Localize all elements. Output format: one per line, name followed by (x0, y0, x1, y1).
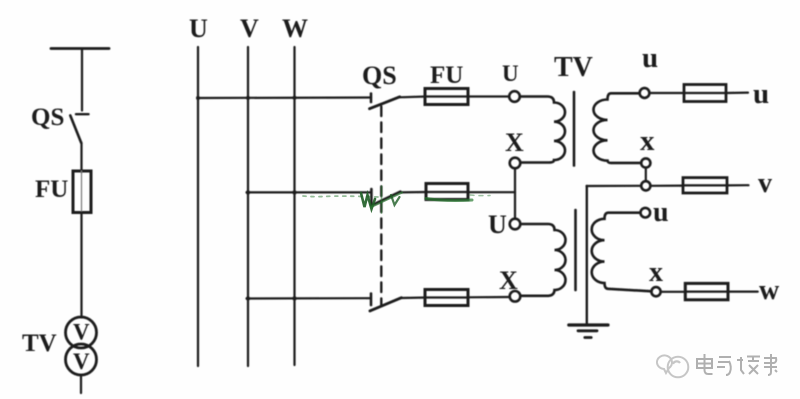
disconnector QS (left) contact tick (76, 113, 89, 115)
junction bus W row3 crossing (292, 296, 296, 300)
voltage transformer TV (left) lower circle (66, 344, 97, 375)
terminal X upper circle (510, 158, 521, 169)
fuse FU row2 wire through (426, 191, 468, 193)
svg-text:FU: FU (430, 62, 463, 89)
green underline under fuse row2 (426, 199, 472, 201)
svg-text:U: U (189, 14, 208, 43)
fuse FU row2 body (426, 184, 468, 200)
svg-text:v: v (758, 168, 772, 199)
junction bus U row1 (196, 96, 200, 100)
green dots right of fuse (470, 194, 490, 197)
wire FU row2 to node (468, 191, 515, 193)
core lower TV (574, 210, 577, 290)
ground bar 3 (585, 336, 591, 339)
disconnector QS (left) blade (70, 116, 81, 144)
svg-text:FU: FU (35, 176, 68, 203)
busbar (51, 47, 109, 50)
terminal u lower circle (spare) (641, 208, 651, 218)
disconnector QS row3 contact tick (370, 294, 373, 306)
fuse FU row1 body (425, 89, 468, 105)
wire busbar to QS (81, 49, 83, 111)
disconnector QS row2 blade (372, 192, 401, 206)
core upper TV (573, 92, 576, 166)
svg-text:V: V (73, 349, 90, 374)
grey watermark logo (657, 355, 688, 377)
disconnector QS row1 blade (370, 97, 400, 109)
fuse v body (683, 178, 727, 193)
wire QS row2 to FU row2 (400, 191, 427, 194)
green vertical on dashed link (381, 186, 383, 213)
fuse FU row1 wire through (425, 95, 468, 97)
svg-text:w: w (759, 275, 780, 306)
fuse w body (685, 283, 728, 299)
wire junction to fuse v (650, 185, 683, 187)
wire QS row1 to FU row1 (400, 95, 426, 98)
glyph du (737, 357, 760, 375)
bus U vertical (197, 47, 199, 366)
svg-text:TV: TV (554, 52, 593, 83)
logo head circle (668, 357, 689, 378)
green check mark (391, 195, 400, 205)
terminal X lower circle (510, 291, 521, 302)
svg-text:QS: QS (362, 61, 397, 90)
ground bar 1 (569, 323, 608, 326)
svg-text:u: u (753, 78, 769, 110)
disconnector QS row3 blade (370, 298, 402, 311)
wire bus V to QS row2 (247, 191, 372, 193)
junction bus V row2 (246, 190, 250, 194)
glyph dian (697, 354, 713, 374)
green scribble along row2 wire (303, 196, 378, 197)
fuse FU (left) wire through (81, 171, 83, 213)
wire FU row1 to terminal U (468, 95, 509, 97)
logo eye mark (673, 361, 680, 364)
wire bus U to QS row1 (198, 96, 371, 99)
svg-text:u: u (653, 197, 669, 228)
junction bus W row1 crossing (293, 96, 297, 100)
disconnector QS row1 contact tick (370, 94, 373, 103)
green zigzag at switch (361, 193, 375, 209)
wire fuse w to output (728, 291, 758, 293)
fuse FU row3 wire through (425, 296, 468, 298)
svg-text:X: X (499, 266, 518, 295)
secondary winding lower TV (592, 213, 652, 292)
svg-text:X: X (505, 128, 524, 157)
terminal U upper circle (509, 91, 520, 102)
fuse w wire through (685, 291, 728, 293)
wire u terminal to fuse u (649, 92, 684, 94)
wire x lower to fuse w (661, 291, 686, 293)
fuse v wire through (683, 184, 727, 186)
junction bus V row3 (246, 296, 250, 300)
node V-phase vertical wire (514, 169, 516, 219)
svg-text:U: U (502, 61, 519, 86)
ground bar 2 (578, 329, 597, 332)
svg-text:x: x (640, 125, 655, 157)
terminal u secondary circle (640, 88, 650, 98)
disconnector QS row2 contact tick (370, 189, 373, 206)
wire FU to TV (80, 213, 82, 318)
fuse u wire through (684, 92, 726, 94)
glyph qi (717, 357, 731, 375)
terminal x lower circle (651, 287, 660, 296)
terminal x secondary circle (641, 158, 650, 167)
terminal U lower circle (510, 219, 521, 230)
bus W vertical (293, 47, 295, 365)
wire QS to FU (80, 143, 82, 172)
wire junction to earthed conductor (587, 185, 642, 187)
junction node circle (641, 181, 650, 190)
secondary winding upper TV (593, 93, 640, 163)
svg-text:V: V (73, 320, 90, 345)
svg-text:u: u (642, 42, 658, 74)
svg-text:x: x (649, 257, 663, 288)
fuse FU (left) body (73, 171, 91, 213)
svg-text:QS: QS (31, 104, 64, 131)
logo bubble (657, 355, 672, 373)
wire FU row3 to terminal X (468, 296, 510, 298)
wire QS row3 to FU row3 (401, 296, 426, 299)
svg-text:V: V (240, 14, 259, 43)
green stroke on blade (371, 193, 402, 208)
primary winding lower TV (521, 224, 566, 296)
bus V vertical (247, 47, 249, 366)
link x to junction (645, 168, 647, 182)
svg-text:TV: TV (22, 330, 57, 357)
wire fuse v to output (727, 184, 749, 186)
voltage transformer TV (left) upper circle (66, 317, 97, 348)
fuse u body (684, 85, 726, 102)
junction bus W row2 crossing (292, 190, 296, 194)
wire fuse u to output (726, 91, 748, 94)
mechanical linkage dashed line (380, 107, 382, 307)
wire bus V/W to QS row3 (247, 297, 371, 299)
primary winding upper TV (521, 97, 566, 163)
junction bus V row1 crossing (246, 96, 250, 100)
svg-text:U: U (488, 210, 507, 239)
green handwriting watermark (303, 186, 490, 213)
glyph shu (764, 354, 777, 375)
wire below TV (80, 375, 82, 393)
svg-text:W: W (282, 14, 308, 43)
earthed conductor vertical (586, 186, 588, 324)
fuse FU row3 body (425, 290, 468, 306)
grey watermark text dianqidushu (697, 354, 777, 375)
